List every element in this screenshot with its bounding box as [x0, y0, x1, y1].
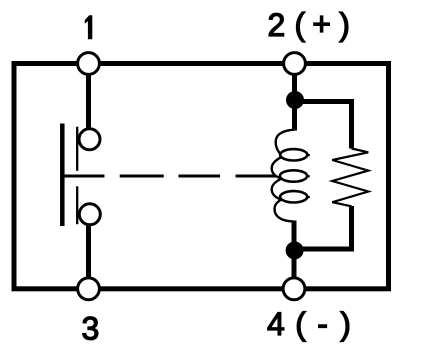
coil L1 loop 1 right tip — [306, 154, 310, 157]
pin circle 1 — [78, 53, 100, 75]
wire pin1 to upper contact — [86, 64, 91, 131]
coil L1 ellipse loop 2 — [280, 170, 307, 181]
coil L1 entry arc — [276, 130, 295, 155]
svg-text:4: 4 — [267, 306, 285, 342]
pin circle 4 — [283, 278, 305, 300]
coil L1 exit arc — [275, 200, 294, 222]
coil L1 loop 3 right tip — [306, 196, 310, 199]
wire pin3 to lower contact — [86, 224, 91, 289]
wire coil bottom to pin4 — [292, 221, 297, 289]
pin circle 3 — [78, 278, 100, 300]
coil L1 ellipse loop 1 — [280, 149, 307, 160]
svg-text:-: - — [317, 306, 328, 342]
wire pin2 to coil top — [292, 64, 297, 131]
svg-text:2: 2 — [268, 7, 286, 43]
wire resistor R1 bottom — [295, 206, 352, 249]
junction node top (+) — [286, 91, 304, 109]
svg-text:+: + — [312, 6, 331, 42]
coil L1 connector arc 1-2 — [272, 157, 282, 179]
lower contact circle — [79, 204, 100, 225]
svg-text:3: 3 — [82, 310, 100, 346]
lower fixed contact line — [76, 186, 78, 224]
svg-text:(: ( — [295, 306, 306, 342]
label pin 4 (-) — [267, 306, 351, 342]
label pin 2 (+) — [268, 6, 350, 43]
pin circle 2 — [284, 53, 306, 75]
label pin 1 — [85, 15, 93, 39]
svg-text:): ) — [340, 306, 351, 342]
switch actuator dashed link — [62, 175, 104, 178]
relay body outline — [14, 64, 389, 289]
wire top to resistor R1 — [295, 102, 352, 149]
upper fixed contact line — [76, 127, 78, 171]
coil L1 connector arc 2-3 — [272, 179, 282, 200]
upper contact circle — [79, 129, 100, 150]
resistor R1 zigzag — [332, 149, 368, 207]
svg-text:): ) — [339, 7, 350, 43]
coil L1 ellipse loop 3 — [280, 191, 307, 202]
switch armature bar — [60, 124, 65, 227]
junction node bottom (-) — [286, 241, 304, 259]
coil L1 loop 2 right tip — [306, 175, 310, 178]
svg-text:(: ( — [295, 7, 306, 43]
